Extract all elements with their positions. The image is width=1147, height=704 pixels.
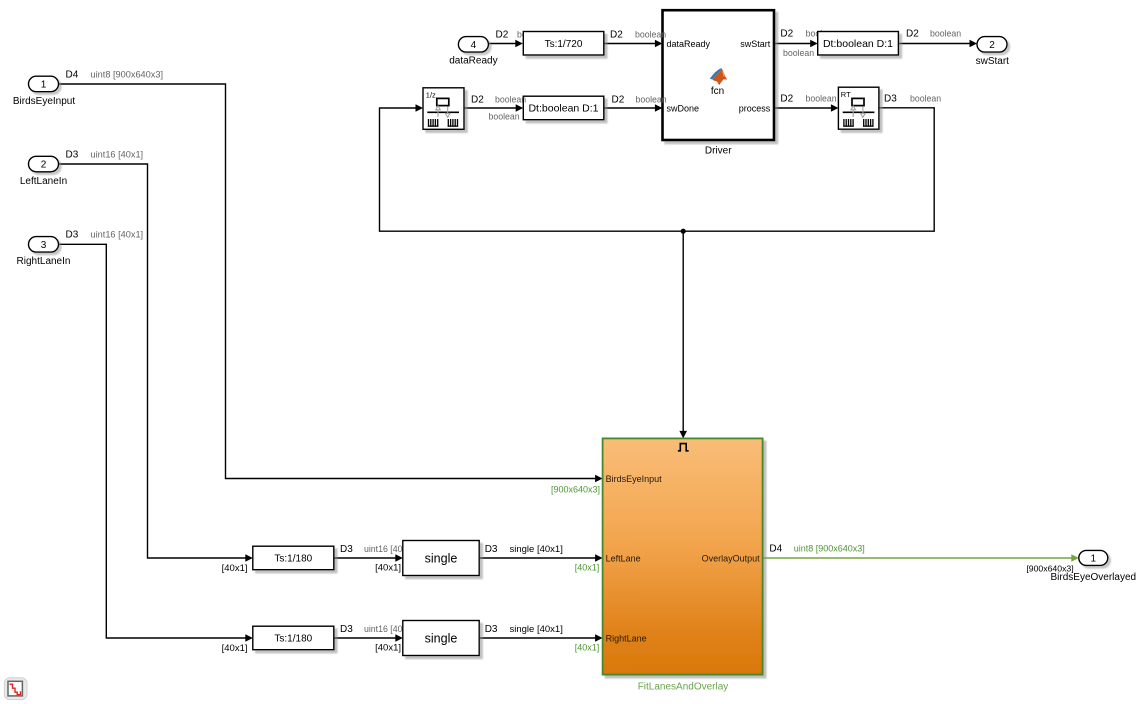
wire single (1) to FitLanesAndOverlay.LeftLane	[479, 557, 595, 559]
svg-text:RT: RT	[841, 90, 851, 99]
arrowhead into Driver.dataReady	[655, 40, 663, 48]
wire Driver.process to RT	[774, 107, 831, 109]
svg-text:Ts:1/720: Ts:1/720	[545, 39, 583, 50]
svg-text:D3: D3	[884, 94, 897, 105]
wire Ts:1/180 (1) to single (1)	[334, 557, 396, 559]
wire inport3 RightLaneIn to Ts:1/180 (2)	[59, 244, 246, 638]
svg-text:Dt:boolean D:1: Dt:boolean D:1	[528, 103, 598, 115]
svg-text:uint8 [900x640x3]: uint8 [900x640x3]	[91, 69, 164, 79]
svg-text:boolean: boolean	[489, 112, 520, 122]
svg-text:D2: D2	[496, 29, 509, 40]
svg-text:D3: D3	[66, 149, 79, 160]
svg-text:D2: D2	[471, 94, 484, 105]
arrowhead into FitLanesAndOverlay.RightLane	[595, 634, 603, 642]
svg-text:[40x1]: [40x1]	[375, 562, 401, 573]
arrowhead into Dt:boolean D:1 top right	[810, 40, 818, 48]
block single (2)	[403, 621, 479, 656]
svg-text:FitLanesAndOverlay: FitLanesAndOverlay	[638, 681, 729, 692]
svg-text:boolean: boolean	[635, 29, 666, 39]
svg-text:single [40x1]: single [40x1]	[510, 624, 563, 635]
svg-text:Ts:1/180: Ts:1/180	[274, 554, 312, 565]
block RT (rate transition)	[838, 87, 879, 129]
svg-text:[40x1]: [40x1]	[575, 563, 600, 573]
svg-text:[40x1]: [40x1]	[375, 642, 401, 653]
arrowhead into outport2 swStart	[970, 40, 978, 48]
arrowhead into Ts:1/180 (1)	[245, 554, 253, 562]
svg-text:D2: D2	[906, 29, 919, 40]
svg-text:fcn: fcn	[711, 86, 724, 97]
block Ts:1/180 (2)	[253, 626, 334, 650]
block single (1)	[403, 541, 479, 576]
svg-text:D2: D2	[780, 94, 793, 105]
svg-text:boolean: boolean	[930, 29, 961, 39]
wire trigger branch from feedback to FitLanesAndOverlay trigger	[682, 231, 684, 431]
wire OverlayOutput to outport1 BirdsEyeOverlayed (green)	[763, 557, 1072, 559]
svg-text:1/z: 1/z	[426, 91, 436, 100]
svg-text:LeftLane: LeftLane	[606, 554, 641, 564]
svg-text:D2: D2	[780, 29, 793, 40]
svg-text:D3: D3	[340, 544, 353, 555]
svg-text:2: 2	[41, 160, 47, 171]
sample time legend button (bottom left)	[4, 678, 27, 700]
wire Ts:1/720 to Driver.dataReady	[604, 43, 656, 45]
wire feedback RT output down and back to 1/z input	[380, 108, 935, 231]
arrowhead into Driver.swDone	[655, 104, 663, 112]
svg-text:Dt:boolean D:1: Dt:boolean D:1	[823, 38, 893, 50]
arrowhead into FitLanesAndOverlay trigger (down)	[679, 431, 687, 439]
svg-text:D2: D2	[610, 29, 623, 40]
arrowhead into Ts:1/720	[515, 40, 523, 48]
svg-text:[40x1]: [40x1]	[222, 563, 248, 574]
svg-text:[900x640x3]: [900x640x3]	[1026, 564, 1073, 574]
arrowhead into 1/z	[416, 104, 424, 112]
svg-text:boolean: boolean	[783, 48, 814, 58]
svg-text:[40x1]: [40x1]	[575, 643, 600, 653]
svg-text:uint16 [40x1]: uint16 [40x1]	[91, 230, 144, 240]
svg-text:D2: D2	[612, 94, 625, 105]
inport 1 oval	[29, 76, 59, 92]
svg-text:dataReady: dataReady	[449, 55, 497, 66]
svg-text:D3: D3	[485, 624, 498, 635]
block Dt:boolean D:1 (top right)	[818, 32, 899, 56]
arrowhead into FitLanesAndOverlay.LeftLane	[595, 554, 603, 562]
arrowhead into single (2)	[395, 634, 403, 642]
wire inport2 LeftLaneIn to Ts:1/180 (1)	[59, 164, 246, 558]
svg-text:single [40x1]: single [40x1]	[510, 544, 563, 555]
svg-text:single: single	[425, 551, 458, 565]
arrowhead into FitLanesAndOverlay.BirdsEyeInput	[595, 475, 603, 483]
block FitLanesAndOverlay subsystem	[603, 438, 763, 674]
wire Dt:boolean D:1 (top right) to outport2 swStart	[898, 43, 970, 45]
svg-text:boolean: boolean	[806, 94, 837, 104]
svg-text:RightLane: RightLane	[606, 634, 647, 644]
svg-text:OverlayOutput: OverlayOutput	[702, 554, 761, 564]
svg-text:uint8 [900x640x3]: uint8 [900x640x3]	[794, 544, 865, 554]
wire 1/z to Dt:boolean D:1 (middle)	[464, 107, 516, 109]
block Dt:boolean D:1 (middle)	[523, 96, 604, 120]
inport 2 oval	[29, 156, 59, 172]
svg-text:boolean: boolean	[636, 94, 667, 104]
arrowhead into Ts:1/180 (2)	[245, 634, 253, 642]
svg-text:swStart: swStart	[740, 39, 771, 49]
wire inport4 dataReady to Ts:1/720	[488, 43, 515, 45]
svg-text:D3: D3	[485, 544, 498, 555]
wire Driver.swStart to Dt:boolean D:1 (top right)	[774, 43, 811, 45]
inport 3 oval	[29, 237, 59, 253]
svg-text:2: 2	[989, 40, 995, 51]
arrowhead into RT	[831, 104, 839, 112]
block Ts:1/180 (1)	[253, 546, 334, 570]
junction dot on feedback wire	[681, 229, 686, 234]
svg-text:process: process	[739, 104, 771, 114]
svg-text:D4: D4	[769, 544, 782, 555]
svg-text:dataReady: dataReady	[667, 39, 711, 49]
svg-text:D4: D4	[66, 69, 79, 80]
svg-text:4: 4	[471, 40, 477, 51]
inport 4 oval	[458, 37, 488, 53]
trigger pulse symbol	[678, 444, 689, 451]
block 1/z (rate transition with delay)	[423, 88, 464, 130]
outport 1 oval BirdsEyeOverlayed	[1079, 550, 1108, 565]
wire Dt:boolean D:1 (middle) to Driver.swDone	[604, 107, 656, 109]
svg-text:D3: D3	[66, 230, 79, 241]
svg-text:LeftLaneIn: LeftLaneIn	[20, 176, 67, 187]
block Ts:1/720	[523, 32, 604, 56]
svg-text:swDone: swDone	[667, 104, 700, 114]
svg-text:Ts:1/180: Ts:1/180	[274, 634, 312, 645]
svg-text:RightLaneIn: RightLaneIn	[17, 256, 71, 267]
arrowhead into single (1)	[395, 554, 403, 562]
arrowhead into outport1 (green)	[1071, 554, 1079, 562]
arrowhead into Dt:boolean D:1 middle	[516, 104, 524, 112]
svg-text:[900x640x3]: [900x640x3]	[551, 484, 600, 494]
svg-text:[40x1]: [40x1]	[222, 643, 248, 654]
wire single (2) to FitLanesAndOverlay.RightLane	[479, 637, 595, 639]
svg-text:swStart: swStart	[976, 56, 1010, 67]
svg-text:D3: D3	[340, 624, 353, 635]
svg-text:boolean: boolean	[495, 94, 526, 104]
svg-text:BirdsEyeInput: BirdsEyeInput	[606, 474, 663, 484]
svg-text:boolean: boolean	[910, 94, 941, 104]
block Driver (MATLAB Function)	[663, 10, 775, 140]
svg-text:single: single	[425, 631, 458, 645]
svg-text:3: 3	[41, 240, 47, 251]
svg-text:1: 1	[41, 80, 47, 91]
wire Ts:1/180 (2) to single (2)	[334, 637, 396, 639]
svg-text:Driver: Driver	[705, 145, 732, 156]
wire inport1 BirdsEyeInput to FitLanesAndOverlay.BirdsEyeInput	[59, 84, 596, 479]
svg-text:uint16 [40x1]: uint16 [40x1]	[91, 149, 144, 159]
svg-text:1: 1	[1091, 554, 1097, 565]
svg-text:BirdsEyeInput: BirdsEyeInput	[13, 96, 75, 107]
svg-text:BirdsEyeOverlayed: BirdsEyeOverlayed	[1051, 572, 1137, 583]
outport 2 oval swStart	[977, 37, 1007, 53]
MATLAB membrane logo	[710, 68, 728, 85]
